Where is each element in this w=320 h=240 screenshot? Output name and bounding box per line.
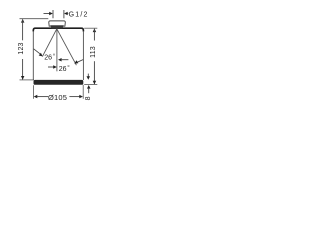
dimension 105: left wire [37, 96, 48, 98]
dimension 8: lower stub wire [88, 88, 90, 93]
dimension 105: right wire [69, 96, 79, 98]
dimension 113: bottom arrowhead [93, 81, 97, 85]
angle 26 lower: arrowhead at right diagonal [74, 60, 78, 63]
spray disk [34, 80, 84, 85]
dimension 113: lower line segment [93, 61, 95, 84]
swivel axis: right diagonal [57, 29, 77, 65]
shower body: right edge [82, 31, 84, 80]
svg-text:Ø105: Ø105 [48, 93, 67, 102]
dimension 8: upper stub wire [87, 74, 89, 77]
angle 26 upper: leader wire [34, 49, 40, 54]
dimension 113: upper line segment [93, 29, 95, 41]
dimension 123: upper line segment [22, 19, 24, 40]
svg-text:113: 113 [90, 46, 97, 58]
dimension 105: left arrowhead [34, 95, 38, 99]
dimension 123: bottom extension line [20, 79, 35, 81]
dimension G1/2: left extension bar [52, 10, 54, 18]
connector nut [49, 21, 66, 26]
angle 26 upper: arrowhead at diagonal [39, 53, 43, 57]
dimension G1/2: right tail wire [66, 13, 69, 15]
dimension 123: lower line segment [22, 59, 24, 79]
dimension 123: bottom arrowhead [21, 76, 25, 80]
svg-text:123: 123 [18, 42, 25, 54]
swivel axis: center line [56, 29, 58, 72]
dimension G1/2: right arrowhead [64, 12, 68, 15]
dimension G1/2: right extension bar [63, 10, 65, 18]
svg-text:G1/2: G1/2 [69, 12, 89, 19]
dimension 8: lower arrowhead (up) [87, 85, 91, 89]
dimension 113: top extension line [84, 27, 97, 29]
angle 26 upper: tail wire [61, 59, 68, 61]
shower body: top edge with rounded corners [33, 28, 83, 31]
dimension 105: right extension line [82, 85, 84, 99]
dimension 113: top arrowhead [93, 29, 97, 33]
swivel axis: left diagonal [42, 29, 56, 57]
dimension G1/2: left arrowhead [49, 12, 53, 15]
dimension 123: top extension line [20, 18, 49, 20]
angle 26 lower: tail wire [48, 66, 54, 68]
dimension 8: upper arrowhead (down) [87, 76, 91, 80]
dimension 123: top arrowhead [21, 19, 25, 23]
dimension 113: bottom extension line [84, 84, 97, 86]
dimension 105: right arrowhead [79, 95, 83, 99]
svg-text:8: 8 [85, 96, 92, 100]
angle 26 lower: arrowhead at center line [53, 65, 57, 69]
angle 26 upper: arrowhead at center line [58, 58, 62, 62]
connector collar [50, 25, 64, 28]
shower body: left edge [32, 31, 34, 80]
dimension 105: left extension line [32, 85, 34, 99]
angle 26 lower: leader wire [77, 60, 83, 63]
dimension G1/2: left tail wire [44, 13, 51, 15]
